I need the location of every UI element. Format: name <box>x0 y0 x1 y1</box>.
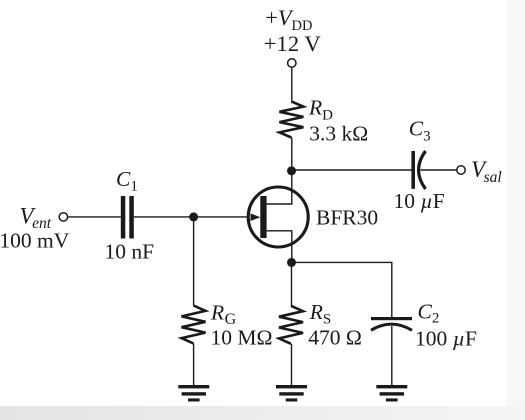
ground (RS) <box>276 385 307 402</box>
capacitor C2 <box>371 317 412 330</box>
node source junction <box>287 258 296 267</box>
wire RG to ground <box>193 344 195 386</box>
wire drain node to C3 <box>292 169 412 171</box>
svg-text:10 MΩ: 10 MΩ <box>211 325 273 349</box>
wire source node to C2 <box>292 262 392 317</box>
svg-text:100 µF: 100 µF <box>415 326 477 350</box>
capacitor C1 <box>121 196 134 239</box>
svg-text:BFR30: BFR30 <box>316 205 378 229</box>
ground (RG) <box>178 385 209 402</box>
wire C2 to ground <box>391 326 393 386</box>
wire source node to RS <box>291 262 293 306</box>
wire gate node to RG <box>193 217 195 306</box>
svg-text:3.3 kΩ: 3.3 kΩ <box>309 122 368 146</box>
resistor RG <box>182 306 206 344</box>
wire drain lead <box>267 170 292 204</box>
wire Vent to C1 <box>68 216 121 218</box>
wire source lead <box>267 231 292 263</box>
svg-text:10 nF: 10 nF <box>105 239 155 263</box>
wire C3 to Vsal terminal <box>421 169 457 171</box>
svg-text:10 µF: 10 µF <box>394 189 445 213</box>
svg-text:+12 V: +12 V <box>264 31 322 56</box>
node drain junction <box>287 166 296 175</box>
transistor Q1 BFR30 <box>248 187 308 247</box>
svg-text:470 Ω: 470 Ω <box>308 326 362 350</box>
resistor RD <box>279 102 303 138</box>
resistor RS <box>279 306 303 344</box>
wire C1 to gate <box>134 216 249 218</box>
node gate junction <box>189 212 198 221</box>
supply terminal +VDD <box>288 59 296 67</box>
wire VDD terminal to RD <box>291 68 293 102</box>
wire RD to drain node <box>291 138 293 171</box>
terminal Vsal <box>457 166 465 174</box>
ground (C2) <box>376 385 407 402</box>
svg-text:100 mV: 100 mV <box>0 229 70 253</box>
wire RS to ground <box>291 344 293 386</box>
capacitor C3 <box>411 151 425 189</box>
terminal Vent <box>59 213 67 221</box>
